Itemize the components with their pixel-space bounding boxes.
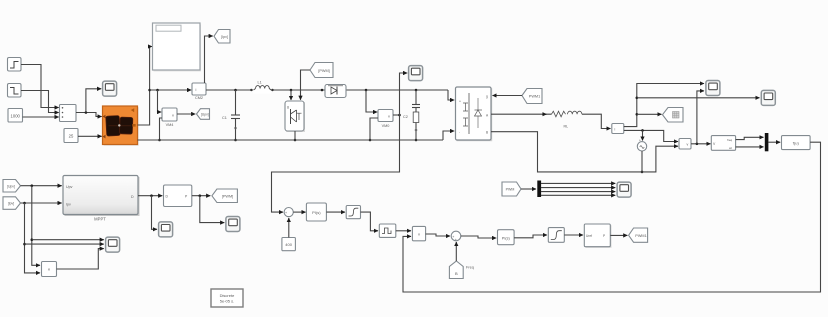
from tag PWM (demux feed): [502, 182, 521, 196]
node P branch: [199, 194, 202, 197]
wire constant 1000 to mux: [23, 116, 59, 118]
PV array block (orange): [103, 106, 139, 146]
wire demux out 1: [541, 182, 615, 184]
svg-text:VM4: VM4: [166, 123, 174, 127]
svg-text:[Ipv]: [Ipv]: [221, 35, 228, 39]
svg-text:B: B: [486, 131, 488, 135]
wire junction up to scope: [86, 89, 101, 113]
Fcn block f(u): [782, 136, 811, 150]
wire PI1 to saturation1: [326, 211, 345, 213]
node D branch: [150, 194, 153, 197]
wire P down to scope: [200, 196, 225, 223]
node Ipv scope tap: [23, 243, 26, 246]
wire product2 to sum2: [426, 234, 450, 236]
wire CM1 minus to AC node: [624, 130, 678, 141]
wire top DC bus left segment: [150, 89, 192, 91]
node C2 top: [415, 89, 418, 92]
node Upv branch: [31, 184, 34, 187]
svg-text:×: ×: [48, 267, 51, 272]
wire Upv tag to MPPT: [21, 185, 62, 187]
wire product to scope3 input3: [57, 249, 104, 269]
MPPT controller block: [63, 176, 140, 222]
scope2: [761, 90, 775, 105]
wire saturation1 to ZOH: [361, 212, 379, 231]
wire Vdc feedback down to sum1: [272, 115, 400, 212]
node i signal branch 2: [636, 97, 639, 100]
wire PWM tag to IGBT gate: [301, 70, 311, 100]
capacitor C1: [222, 90, 240, 140]
wire Ipv down to product: [25, 203, 41, 273]
svg-text:v: v: [687, 143, 689, 147]
from tag Ipv (MPPT input): [3, 197, 21, 210]
wire step1 to mux: [21, 65, 59, 108]
scope pwm: [226, 217, 240, 232]
node C1 top: [234, 89, 237, 92]
goto tag Upv: [197, 109, 210, 120]
node (PV + junction on top bus): [148, 89, 151, 92]
svg-text:P: P: [603, 234, 605, 238]
svg-text:[PWM]: [PWM]: [318, 69, 329, 73]
goto tag Iac (grid icon): [663, 108, 684, 123]
svg-text:PWM1: PWM1: [529, 94, 540, 98]
node Ipv branch: [23, 202, 26, 205]
wire B tag up to sum2: [455, 242, 457, 261]
wire mux to PV array Ir input: [76, 113, 102, 117]
wire Vdc up to scope: [400, 73, 408, 115]
wire PWM tag to demux: [521, 188, 536, 190]
wire CM1 i signal up with branches: [624, 84, 704, 127]
from tag Upv (MPPT input): [3, 180, 21, 193]
sum2 circle: [451, 231, 461, 242]
svg-text:wt: wt: [729, 146, 732, 150]
wire D down to scope: [152, 196, 158, 230]
node grid return: [641, 171, 644, 174]
svg-text:PWM: PWM: [506, 188, 515, 192]
wire branch to goto grid tag: [637, 113, 662, 115]
svg-text:[PWM]: [PWM]: [222, 195, 233, 199]
wire subsystem output: [192, 195, 211, 197]
svg-text:f(u): f(u): [793, 141, 800, 146]
wire VM4 output to Goto Upv: [177, 113, 195, 115]
goto tag PWM1: [629, 228, 648, 242]
goto tag Ipv: [214, 30, 230, 44]
svg-text:+: +: [459, 100, 461, 104]
wire CM2 i output to Goto Ipv: [205, 36, 213, 83]
scope1 (two input): [706, 81, 720, 96]
svg-text:freq: freq: [727, 138, 733, 142]
wire step2 to mux: [21, 91, 59, 113]
IGBT switch block: [285, 101, 305, 132]
svg-text:v: v: [388, 114, 390, 119]
node AC source top: [641, 129, 644, 132]
svg-text:Discrete: Discrete: [220, 293, 235, 298]
svg-text:C1: C1: [222, 116, 227, 120]
svg-text:CM2: CM2: [195, 96, 203, 100]
wire top DC bus middle segment: [206, 89, 448, 91]
svg-text:[Upv]: [Upv]: [201, 113, 209, 117]
wire Ipv to scope3 input2: [25, 243, 104, 245]
svg-text:400: 400: [285, 242, 292, 247]
svg-text:+: +: [639, 139, 641, 143]
node VM4 minus tap: [158, 139, 161, 142]
saturation 1: [346, 206, 360, 219]
wire Ipv tag to MPPT: [21, 202, 62, 204]
product2 block: [412, 226, 425, 240]
svg-text:[Ipv]: [Ipv]: [8, 202, 14, 206]
wire Upv down to product: [32, 186, 40, 266]
node Upv scope tap: [31, 238, 34, 241]
wire VM0 output junction: [393, 114, 400, 116]
node (mux output junction): [85, 111, 88, 114]
wire demux out 2: [541, 187, 615, 189]
voltage measurement VM4: [162, 108, 177, 127]
svg-text:g: g: [486, 95, 488, 99]
from tag B (sine ref, up point): [449, 261, 473, 279]
wire top bus into IGBT collector: [290, 90, 292, 100]
PI controller 2: [498, 230, 515, 245]
wire bottom DC bus: [138, 139, 444, 141]
wire PWM1 tag to inverter g: [493, 95, 523, 97]
duty to PWM subsystem block: [164, 185, 192, 207]
wire top bus to VM4 plus: [158, 90, 162, 112]
node C1 bottom: [234, 139, 237, 142]
svg-text:5e-05 s.: 5e-05 s.: [220, 299, 234, 304]
wire RL to grid current measurement: [582, 114, 611, 128]
current measurement CM1 (grid): [612, 124, 624, 134]
svg-text:25: 25: [69, 134, 74, 139]
scope duty: [159, 222, 173, 237]
wire MPPT D output: [138, 195, 162, 197]
wire 400 up to sum1: [288, 218, 290, 238]
wire saturation2 to PWM generator: [564, 234, 583, 236]
wire AC source bottom to grid return: [641, 151, 643, 172]
inductor RL-L: [564, 111, 582, 128]
svg-text:MPPT: MPPT: [94, 217, 106, 222]
node VM0 minus tap: [369, 139, 372, 142]
step source block (irradiance step up): [8, 58, 22, 72]
wire demux out 3: [541, 191, 615, 193]
svg-text:Uref: Uref: [586, 234, 592, 238]
voltage measurement VM1 (grid): [679, 139, 691, 150]
sum1 (Vdc error): [284, 208, 293, 219]
svg-text:v: v: [172, 113, 174, 118]
node IGBT bottom tap: [294, 139, 297, 142]
node IGBT top tap: [290, 89, 293, 92]
wire sum1 to PI1: [293, 211, 305, 213]
wire VM4 minus to bottom bus: [160, 118, 163, 140]
svg-text:D: D: [131, 195, 134, 199]
demux bar (black): [537, 181, 541, 198]
from tag PWM1 (inverter gate): [522, 89, 542, 104]
constant block 25 (temperature): [64, 129, 78, 143]
scope4 (pwm signals): [617, 182, 631, 197]
constant 400 (Vdc ref): [282, 238, 296, 251]
AC voltage source V1: [637, 139, 646, 152]
wire Upv to scope3 input1: [32, 239, 104, 241]
svg-text:g: g: [287, 105, 289, 109]
wire PLL wt to mux bar: [736, 146, 764, 148]
svg-text:-: -: [459, 131, 460, 135]
product block Ppv: [42, 262, 57, 277]
goto tag PWM: [212, 189, 238, 203]
inverter bridge U1: [456, 87, 493, 141]
wire PLL freq to mux bar: [736, 137, 764, 139]
mux bar (black): [765, 133, 769, 151]
capacitor C2 with ESR: [403, 90, 420, 140]
scope (irradiance): [103, 81, 117, 96]
wire ZOH to product2: [396, 230, 411, 232]
wire bottom bus bend into inverter minus: [443, 131, 454, 140]
wire VM0 minus to bottom bus: [370, 118, 378, 140]
resistor RL-R: [552, 111, 566, 117]
wire constant 25 to PV array T input: [78, 135, 102, 137]
wire arrow on A line: [542, 113, 547, 115]
node i signal branch 1: [636, 113, 639, 116]
svg-text:[Upv]: [Upv]: [7, 184, 15, 188]
wire VM1 branch up to scope1: [697, 91, 704, 144]
zero order hold block: [379, 224, 396, 237]
node Vdc signal junction: [398, 114, 401, 117]
diode D1: [321, 85, 346, 98]
svg-text:1000: 1000: [11, 113, 21, 118]
scope Vdc: [409, 66, 423, 81]
svg-text:B: B: [455, 271, 458, 276]
PLL block: [711, 136, 735, 151]
inductor L1: [250, 81, 274, 94]
svg-text:i: i: [196, 87, 197, 92]
node VM1 output: [696, 143, 699, 146]
svg-text:VM0: VM0: [382, 124, 390, 128]
wire mux bar to Fcn block: [768, 141, 780, 143]
from tag PWM (boost gate): [310, 63, 333, 78]
svg-text:PI(s): PI(s): [312, 210, 321, 215]
svg-text:RL: RL: [564, 125, 569, 129]
wire PWM generator to goto PWM1: [610, 234, 627, 236]
PWM generator block: [584, 224, 611, 248]
svg-text:Ipv: Ipv: [66, 203, 71, 207]
svg-text:Freq: Freq: [466, 266, 474, 270]
wire PI2 to saturation2: [514, 235, 547, 238]
wire VM1 output junction: [691, 143, 711, 145]
node VM0 plus tap: [365, 89, 368, 92]
svg-text:Upv: Upv: [66, 185, 73, 189]
node VM4 plus tap: [156, 89, 159, 92]
wire sum2 to PI2: [461, 236, 496, 238]
wire IGBT emitter to bottom bus: [294, 131, 296, 140]
wire PV m output up to display window: [138, 47, 153, 126]
node C2 bottom: [415, 139, 418, 142]
step source block (irradiance step down): [8, 84, 22, 98]
svg-text:L1: L1: [258, 81, 262, 85]
saturation 2: [548, 228, 564, 243]
constant block 1000 (irradiance): [8, 109, 23, 123]
voltage measurement VM0: [378, 110, 393, 129]
svg-text:C2: C2: [403, 115, 408, 119]
svg-text:+: +: [455, 238, 457, 242]
mux / signal builder block: [60, 105, 77, 122]
powergui block: [211, 289, 243, 307]
wire inverter A output to RL: [491, 113, 552, 115]
wire down into AC source: [642, 130, 644, 140]
wire top bus bend into inverter plus: [448, 90, 454, 100]
wire branch to scope2: [637, 97, 760, 99]
svg-text:PI(s): PI(s): [502, 236, 511, 240]
wire top bus to VM0 plus: [366, 90, 377, 112]
wire inverter B to grid return bus: [491, 132, 678, 172]
display window block (large white box): [153, 23, 202, 72]
PI controller 1: [306, 203, 326, 221]
wire demux out 4: [541, 194, 615, 196]
svg-text:PWM1: PWM1: [635, 234, 646, 238]
current measurement CM2: [192, 83, 206, 100]
scope3 (PV measurements): [106, 237, 120, 252]
wire frequency feedback loop: [403, 142, 821, 292]
